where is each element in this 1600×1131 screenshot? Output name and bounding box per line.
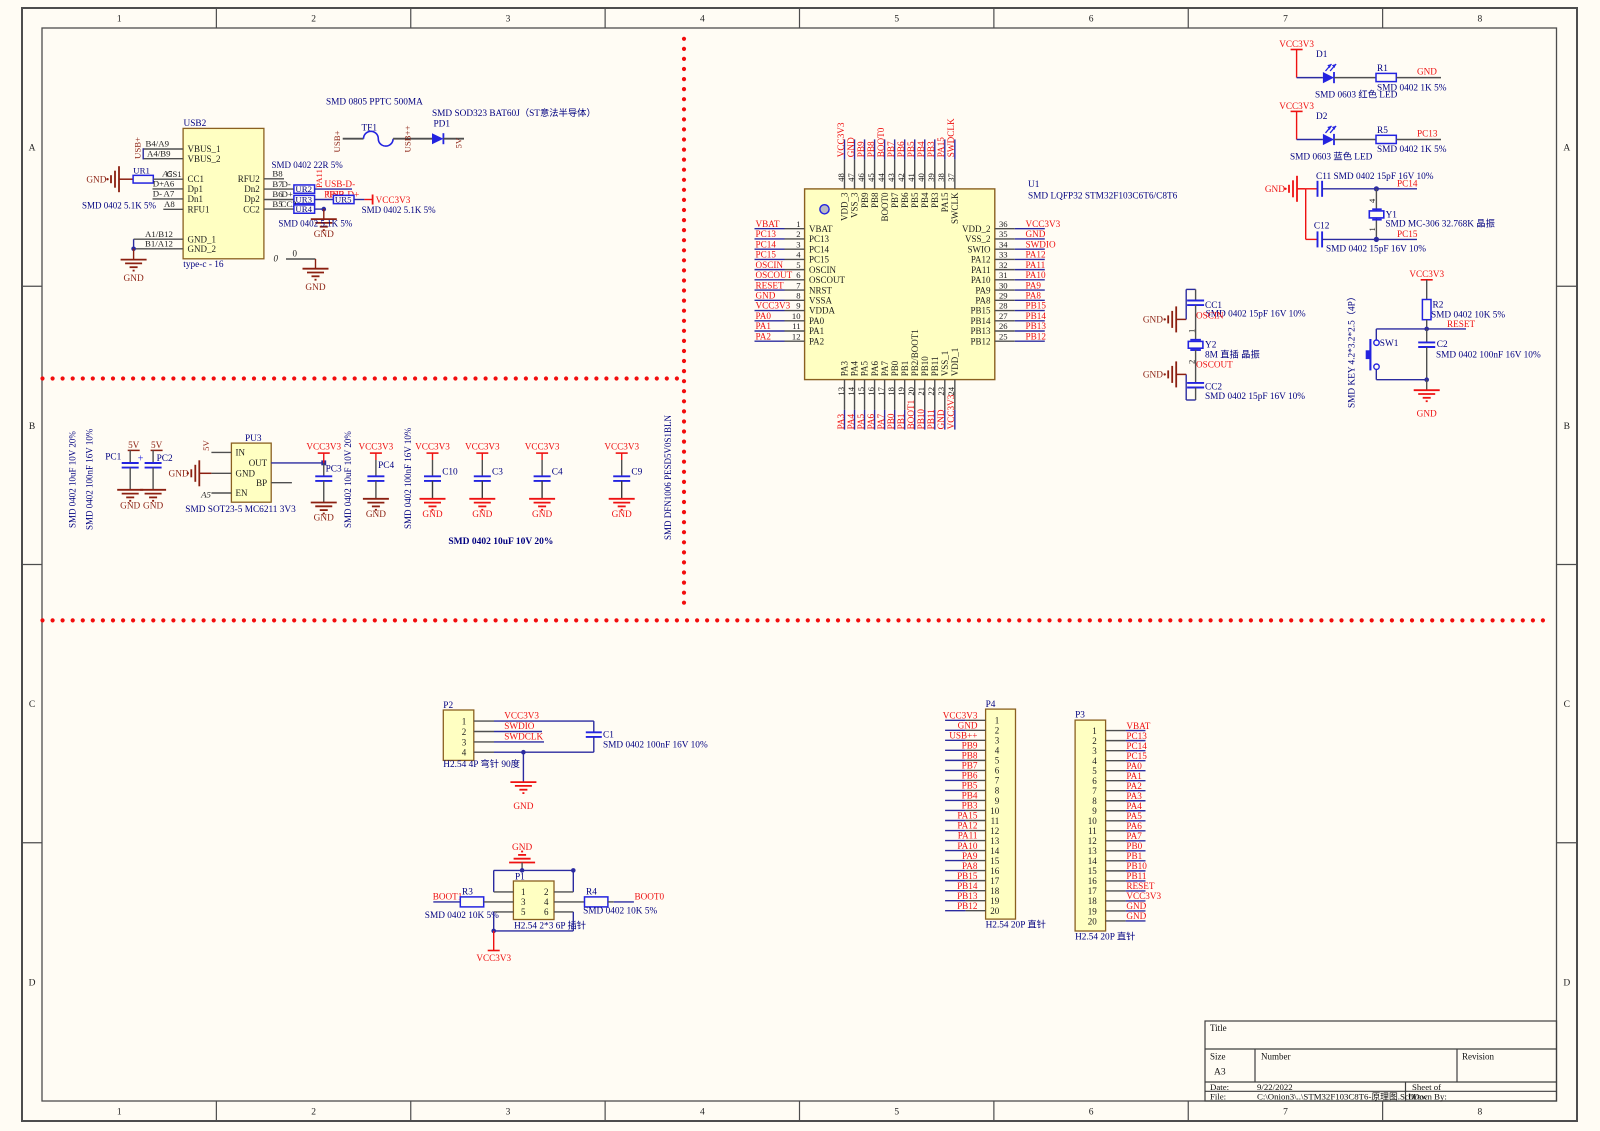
svg-text:20: 20 xyxy=(990,906,1000,916)
svg-text:4: 4 xyxy=(1092,756,1097,766)
svg-text:5: 5 xyxy=(796,260,800,270)
svg-text:PA4: PA4 xyxy=(850,361,860,377)
svg-text:GND: GND xyxy=(314,230,334,240)
svg-text:13: 13 xyxy=(836,387,846,396)
svg-text:VDD_1: VDD_1 xyxy=(950,348,960,377)
svg-text:BOOT0: BOOT0 xyxy=(876,127,886,157)
svg-text:PB5: PB5 xyxy=(962,781,978,791)
svg-text:OSCOUT: OSCOUT xyxy=(1196,359,1233,369)
svg-text:PB6: PB6 xyxy=(900,192,910,208)
svg-text:PA0: PA0 xyxy=(809,316,825,326)
svg-text:PA15: PA15 xyxy=(940,192,950,212)
svg-text:GND: GND xyxy=(1126,911,1146,921)
svg-text:BOOT0: BOOT0 xyxy=(880,192,890,221)
svg-text:C10: C10 xyxy=(442,467,458,477)
svg-text:D-: D- xyxy=(153,189,162,199)
svg-text:2: 2 xyxy=(1186,360,1196,364)
svg-text:TF1: TF1 xyxy=(362,124,378,134)
svg-text:31: 31 xyxy=(999,270,1008,280)
svg-text:+: + xyxy=(138,454,144,465)
svg-text:34: 34 xyxy=(999,239,1008,249)
svg-text:SMD 0402 10uF 10V 20%: SMD 0402 10uF 10V 20% xyxy=(68,431,78,528)
svg-text:OSCIN: OSCIN xyxy=(1196,311,1224,321)
svg-text:IN: IN xyxy=(236,448,246,458)
svg-text:3: 3 xyxy=(506,15,511,25)
svg-text:8: 8 xyxy=(796,291,800,301)
svg-text:27: 27 xyxy=(999,311,1008,321)
svg-text:13: 13 xyxy=(1088,846,1098,856)
svg-text:PA3: PA3 xyxy=(1126,791,1142,801)
svg-text:PB4: PB4 xyxy=(962,791,978,801)
svg-text:SMD 0402 15pF 16V 10%: SMD 0402 15pF 16V 10% xyxy=(1205,392,1305,402)
svg-text:A7: A7 xyxy=(164,189,175,199)
svg-text:6: 6 xyxy=(995,766,1000,776)
svg-text:23: 23 xyxy=(936,387,946,396)
svg-text:37: 37 xyxy=(946,173,956,182)
svg-text:B: B xyxy=(29,422,35,432)
svg-text:41: 41 xyxy=(906,173,916,182)
svg-text:5: 5 xyxy=(521,907,526,917)
svg-text:VCC3V3: VCC3V3 xyxy=(943,711,978,721)
svg-text:PA11: PA11 xyxy=(958,831,978,841)
svg-text:5: 5 xyxy=(995,756,1000,766)
svg-text:VCC3V3: VCC3V3 xyxy=(836,122,846,157)
svg-text:GND: GND xyxy=(120,502,140,512)
svg-text:21: 21 xyxy=(916,387,926,396)
svg-text:GND: GND xyxy=(472,510,492,520)
svg-text:PA11: PA11 xyxy=(971,265,990,275)
svg-text:SMD KEY 4.2*3.2*2.5（4P）: SMD KEY 4.2*3.2*2.5（4P） xyxy=(1347,292,1358,408)
svg-text:22: 22 xyxy=(926,387,936,396)
svg-text:1: 1 xyxy=(521,887,526,897)
svg-text:15: 15 xyxy=(1088,866,1098,876)
svg-text:PB10: PB10 xyxy=(920,356,930,377)
svg-text:1: 1 xyxy=(796,219,800,229)
svg-text:VCC3V3: VCC3V3 xyxy=(465,441,500,451)
svg-text:H2.54 4P 弯针 90度: H2.54 4P 弯针 90度 xyxy=(443,758,520,770)
svg-text:4: 4 xyxy=(700,15,705,25)
svg-text:11: 11 xyxy=(1088,826,1097,836)
svg-text:0: 0 xyxy=(293,249,298,259)
svg-text:GND: GND xyxy=(422,510,442,520)
svg-text:PB1: PB1 xyxy=(1126,851,1142,861)
svg-text:GND: GND xyxy=(143,502,163,512)
svg-text:VCC3V3: VCC3V3 xyxy=(359,441,394,451)
svg-text:18: 18 xyxy=(886,387,896,396)
svg-text:PB12: PB12 xyxy=(957,901,978,911)
svg-text:Dn1: Dn1 xyxy=(188,194,204,204)
svg-text:type-c - 16: type-c - 16 xyxy=(183,260,224,270)
svg-text:0: 0 xyxy=(274,253,279,263)
svg-text:U1: U1 xyxy=(1028,180,1040,190)
svg-text:H2.54 20P 直针: H2.54 20P 直针 xyxy=(1075,930,1135,942)
svg-text:PC13: PC13 xyxy=(756,229,777,239)
svg-text:28: 28 xyxy=(999,301,1008,311)
svg-text:PB0: PB0 xyxy=(1126,841,1142,851)
svg-text:VCC3V3: VCC3V3 xyxy=(306,441,341,451)
svg-text:GND: GND xyxy=(86,176,106,186)
svg-text:43: 43 xyxy=(886,173,896,182)
svg-text:GND: GND xyxy=(532,510,552,520)
svg-text:PC14: PC14 xyxy=(1397,178,1418,188)
svg-text:SMD 0402 5.1K 5%: SMD 0402 5.1K 5% xyxy=(362,205,437,215)
svg-text:2: 2 xyxy=(796,229,800,239)
svg-text:SWDIO: SWDIO xyxy=(1026,239,1056,249)
svg-text:GND: GND xyxy=(1143,316,1163,326)
svg-text:C2: C2 xyxy=(1437,340,1448,350)
svg-text:PB3: PB3 xyxy=(930,192,940,208)
svg-text:VCC3V3: VCC3V3 xyxy=(525,441,560,451)
svg-text:6: 6 xyxy=(1089,1108,1094,1118)
svg-text:10: 10 xyxy=(792,311,801,321)
svg-text:10: 10 xyxy=(990,806,1000,816)
svg-text:35: 35 xyxy=(999,229,1008,239)
svg-text:SMD DFN1006 PESD5V0S1BLN: SMD DFN1006 PESD5V0S1BLN xyxy=(663,414,673,540)
svg-text:7: 7 xyxy=(796,280,801,290)
svg-text:2: 2 xyxy=(544,887,549,897)
svg-text:2: 2 xyxy=(311,15,316,25)
svg-text:D: D xyxy=(1563,978,1570,988)
svg-text:PB4: PB4 xyxy=(916,141,926,157)
svg-text:SMD LQFP32 STM32F103C6T6/C8T6: SMD LQFP32 STM32F103C6T6/C8T6 xyxy=(1028,192,1178,202)
svg-text:GND: GND xyxy=(305,283,325,293)
svg-text:PA11: PA11 xyxy=(314,169,324,188)
svg-text:GND: GND xyxy=(236,469,256,479)
svg-text:16: 16 xyxy=(990,866,1000,876)
svg-text:VSS_2: VSS_2 xyxy=(965,234,991,244)
svg-text:4: 4 xyxy=(700,1108,705,1118)
svg-text:VCC3V3: VCC3V3 xyxy=(504,711,539,721)
svg-text:SWIO: SWIO xyxy=(968,244,991,254)
svg-text:16: 16 xyxy=(866,386,876,395)
svg-text:A3: A3 xyxy=(1214,1068,1226,1078)
svg-text:5V: 5V xyxy=(151,440,163,450)
svg-text:PA6: PA6 xyxy=(870,361,880,377)
svg-text:PB7: PB7 xyxy=(962,761,978,771)
svg-text:RESET: RESET xyxy=(1447,319,1475,329)
svg-text:PA7: PA7 xyxy=(876,413,886,429)
svg-text:P3: P3 xyxy=(1075,710,1085,720)
svg-text:VCC3V3: VCC3V3 xyxy=(1279,101,1314,111)
svg-text:VCC3V3: VCC3V3 xyxy=(476,953,511,963)
svg-text:PA15: PA15 xyxy=(957,811,977,821)
svg-text:PB0: PB0 xyxy=(890,360,900,376)
svg-text:VDD_3: VDD_3 xyxy=(840,192,850,221)
svg-text:PA11: PA11 xyxy=(1026,260,1046,270)
svg-text:15: 15 xyxy=(856,387,866,396)
svg-text:PA12: PA12 xyxy=(957,821,977,831)
svg-text:2: 2 xyxy=(311,1108,316,1118)
svg-text:PA10: PA10 xyxy=(957,841,977,851)
svg-text:PC1: PC1 xyxy=(105,453,121,463)
svg-text:PB10: PB10 xyxy=(1126,861,1147,871)
svg-text:CC2: CC2 xyxy=(243,205,260,215)
svg-text:A5: A5 xyxy=(200,489,211,499)
svg-text:40: 40 xyxy=(916,173,926,182)
svg-text:PA8: PA8 xyxy=(962,861,978,871)
svg-text:CC1: CC1 xyxy=(188,174,205,184)
svg-text:PB3: PB3 xyxy=(926,141,936,157)
svg-text:OSCIN: OSCIN xyxy=(809,265,837,275)
svg-text:4: 4 xyxy=(1367,198,1377,203)
svg-text:PB11: PB11 xyxy=(930,357,940,377)
svg-text:B1/A12: B1/A12 xyxy=(145,239,173,249)
svg-text:SMD 0805 PPTC 500MA: SMD 0805 PPTC 500MA xyxy=(326,98,423,108)
svg-text:PC14: PC14 xyxy=(1126,741,1147,751)
svg-text:UR4: UR4 xyxy=(295,204,312,214)
svg-text:6: 6 xyxy=(796,270,801,280)
svg-text:19: 19 xyxy=(896,387,906,396)
svg-text:20: 20 xyxy=(906,387,916,396)
svg-text:VCC3V3: VCC3V3 xyxy=(604,441,639,451)
svg-text:GND: GND xyxy=(958,721,978,731)
svg-text:5V: 5V xyxy=(453,137,463,148)
svg-text:C9: C9 xyxy=(631,467,642,477)
svg-text:R5: R5 xyxy=(1377,126,1388,136)
svg-text:SWDCLK: SWDCLK xyxy=(504,732,543,742)
svg-text:D+: D+ xyxy=(153,179,164,189)
svg-text:16: 16 xyxy=(1088,876,1098,886)
svg-text:11: 11 xyxy=(991,816,1000,826)
svg-text:PB6: PB6 xyxy=(896,141,906,157)
svg-text:PC15: PC15 xyxy=(1126,751,1147,761)
svg-text:38: 38 xyxy=(936,173,946,182)
svg-text:44: 44 xyxy=(876,173,886,182)
svg-text:1: 1 xyxy=(1092,726,1097,736)
svg-text:C1: C1 xyxy=(603,731,614,741)
svg-text:6: 6 xyxy=(544,907,549,917)
svg-text:PC4: PC4 xyxy=(378,461,394,471)
svg-text:SMD 0603 红色 LED: SMD 0603 红色 LED xyxy=(1315,89,1398,101)
svg-text:BOOT0: BOOT0 xyxy=(635,891,665,901)
svg-text:PB5: PB5 xyxy=(910,192,920,208)
svg-text:25: 25 xyxy=(999,331,1008,341)
svg-text:VCC3V3: VCC3V3 xyxy=(1126,891,1161,901)
svg-text:D1: D1 xyxy=(1316,50,1328,60)
svg-text:1: 1 xyxy=(995,716,1000,726)
svg-text:26: 26 xyxy=(999,321,1008,331)
svg-text:UR3: UR3 xyxy=(295,195,312,205)
svg-text:3: 3 xyxy=(521,897,526,907)
svg-text:H2.54 2*3 6P 插针: H2.54 2*3 6P 插针 xyxy=(514,919,586,931)
svg-text:PA0: PA0 xyxy=(756,311,772,321)
svg-text:PB7: PB7 xyxy=(890,192,900,208)
svg-text:7: 7 xyxy=(1092,786,1097,796)
svg-text:VCC3V3: VCC3V3 xyxy=(1279,39,1314,49)
svg-text:C: C xyxy=(1564,700,1570,710)
svg-text:PB8: PB8 xyxy=(962,751,978,761)
svg-text:14: 14 xyxy=(990,846,1000,856)
svg-text:RFU1: RFU1 xyxy=(188,205,210,215)
svg-text:A6: A6 xyxy=(164,179,175,189)
svg-text:PB14: PB14 xyxy=(1026,311,1047,321)
svg-text:USB++: USB++ xyxy=(402,125,412,152)
svg-text:GND: GND xyxy=(1417,410,1437,420)
svg-text:PA5: PA5 xyxy=(860,361,870,377)
svg-text:1: 1 xyxy=(117,1108,122,1118)
svg-text:GND: GND xyxy=(936,409,946,429)
svg-text:3: 3 xyxy=(506,1108,511,1118)
svg-text:VBUS_1: VBUS_1 xyxy=(188,144,221,154)
svg-text:PA7: PA7 xyxy=(1126,831,1142,841)
svg-text:36: 36 xyxy=(999,219,1008,229)
svg-text:RESET: RESET xyxy=(1126,881,1154,891)
svg-text:PB12: PB12 xyxy=(1026,331,1047,341)
svg-text:VSSA: VSSA xyxy=(809,296,833,306)
svg-text:GND: GND xyxy=(846,137,856,157)
svg-text:PB2/BOOT1: PB2/BOOT1 xyxy=(910,329,920,376)
svg-text:PC13: PC13 xyxy=(1417,129,1438,139)
svg-text:PA2: PA2 xyxy=(1126,781,1142,791)
svg-text:PA0: PA0 xyxy=(1126,761,1142,771)
svg-text:Dp2: Dp2 xyxy=(244,194,260,204)
svg-text:PA1: PA1 xyxy=(756,321,772,331)
svg-text:PC3: PC3 xyxy=(326,464,342,474)
svg-text:VSS_3: VSS_3 xyxy=(850,192,860,218)
svg-text:33: 33 xyxy=(999,250,1008,260)
svg-text:NRST: NRST xyxy=(809,285,833,295)
svg-text:PA12: PA12 xyxy=(1026,250,1046,260)
svg-text:SW1: SW1 xyxy=(1380,339,1399,349)
svg-text:SMD 0402 1K 5%: SMD 0402 1K 5% xyxy=(1377,145,1447,155)
svg-text:20: 20 xyxy=(1088,916,1098,926)
svg-text:GND: GND xyxy=(1126,901,1146,911)
svg-text:SMD 0402 100nF 16V 10%: SMD 0402 100nF 16V 10% xyxy=(1436,350,1541,360)
svg-text:PA6: PA6 xyxy=(866,413,876,429)
svg-text:47: 47 xyxy=(846,173,856,182)
svg-text:GND_2: GND_2 xyxy=(188,244,217,254)
svg-text:BP: BP xyxy=(256,478,267,488)
svg-text:PC15: PC15 xyxy=(809,255,830,265)
svg-text:A8: A8 xyxy=(164,199,175,209)
svg-text:PB15: PB15 xyxy=(957,871,978,881)
svg-text:PB15: PB15 xyxy=(970,306,991,316)
svg-text:OSCOUT: OSCOUT xyxy=(809,275,846,285)
svg-text:PA5: PA5 xyxy=(856,413,866,429)
svg-text:Dp1: Dp1 xyxy=(188,184,204,194)
svg-text:9/22/2022: 9/22/2022 xyxy=(1257,1082,1293,1092)
svg-text:PB15: PB15 xyxy=(1026,301,1047,311)
svg-text:PB9: PB9 xyxy=(860,192,870,208)
svg-text:29: 29 xyxy=(999,291,1008,301)
svg-text:PB14: PB14 xyxy=(970,316,991,326)
svg-text:GND: GND xyxy=(1417,67,1437,77)
svg-text:PA15: PA15 xyxy=(936,137,946,157)
svg-text:RFU2: RFU2 xyxy=(238,174,260,184)
svg-text:PC2: PC2 xyxy=(157,454,173,464)
svg-text:VCC3V3: VCC3V3 xyxy=(946,394,956,429)
svg-text:24: 24 xyxy=(946,386,956,395)
svg-text:18: 18 xyxy=(1088,896,1098,906)
svg-text:C:\Onion3\..\STM32F103C8T6-原理图: C:\Onion3\..\STM32F103C8T6-原理图.SchDoc xyxy=(1257,1091,1428,1101)
svg-text:OSCIN: OSCIN xyxy=(756,260,784,270)
svg-text:VBAT: VBAT xyxy=(1126,721,1150,731)
svg-text:SMD 0402 10K 5%: SMD 0402 10K 5% xyxy=(425,911,499,921)
svg-text:6: 6 xyxy=(1092,776,1097,786)
svg-text:8: 8 xyxy=(1477,15,1482,25)
svg-text:19: 19 xyxy=(990,896,1000,906)
svg-text:PA7: PA7 xyxy=(880,361,890,377)
svg-text:A: A xyxy=(29,144,36,154)
svg-text:12: 12 xyxy=(792,331,801,341)
svg-text:File:: File: xyxy=(1210,1091,1226,1101)
svg-text:B4/A9: B4/A9 xyxy=(146,139,170,149)
svg-text:PB8: PB8 xyxy=(866,141,876,157)
svg-text:VDDA: VDDA xyxy=(809,306,835,316)
svg-text:SMD 0402 100nF 16V 10%: SMD 0402 100nF 16V 10% xyxy=(403,427,413,529)
svg-text:32: 32 xyxy=(999,260,1008,270)
svg-text:PA9: PA9 xyxy=(975,285,991,295)
svg-text:PC15: PC15 xyxy=(1397,229,1418,239)
svg-text:GND: GND xyxy=(1026,229,1046,239)
svg-text:SMD MC-306 32.768K 晶振: SMD MC-306 32.768K 晶振 xyxy=(1385,217,1495,229)
svg-text:C12: C12 xyxy=(1314,221,1330,231)
svg-text:15: 15 xyxy=(990,856,1000,866)
svg-text:48: 48 xyxy=(836,173,846,182)
svg-text:R3: R3 xyxy=(462,888,473,898)
svg-text:2: 2 xyxy=(462,727,467,737)
svg-text:14: 14 xyxy=(1088,856,1098,866)
svg-text:PC14: PC14 xyxy=(809,244,830,254)
svg-text:Drawn By:: Drawn By: xyxy=(1408,1091,1447,1101)
svg-text:UR2: UR2 xyxy=(295,184,312,194)
svg-text:VCC3V3: VCC3V3 xyxy=(1409,269,1444,279)
svg-text:D+: D+ xyxy=(282,189,293,199)
svg-text:Size: Size xyxy=(1210,1052,1226,1062)
svg-text:SWDIO: SWDIO xyxy=(504,721,534,731)
svg-text:PB4: PB4 xyxy=(920,192,930,208)
svg-text:SMD 0402 5.1K 5%: SMD 0402 5.1K 5% xyxy=(82,201,157,211)
svg-text:7: 7 xyxy=(1283,15,1288,25)
svg-text:GND: GND xyxy=(366,510,386,520)
svg-text:39: 39 xyxy=(926,173,936,182)
svg-text:USB++: USB++ xyxy=(949,731,977,741)
svg-text:46: 46 xyxy=(856,173,866,182)
svg-text:5: 5 xyxy=(1092,766,1097,776)
svg-text:C3: C3 xyxy=(492,467,503,477)
svg-text:PA8: PA8 xyxy=(1026,291,1042,301)
svg-text:Title: Title xyxy=(1210,1023,1227,1033)
svg-text:VCC3V3: VCC3V3 xyxy=(415,441,450,451)
svg-text:7: 7 xyxy=(1283,1108,1288,1118)
svg-text:A1/B12: A1/B12 xyxy=(145,229,173,239)
svg-text:5V: 5V xyxy=(128,440,140,450)
svg-text:B8: B8 xyxy=(272,169,283,179)
svg-text:SMD 0402 10uF 10V 20%: SMD 0402 10uF 10V 20% xyxy=(343,431,353,528)
svg-text:1: 1 xyxy=(1367,227,1377,231)
svg-text:USB+: USB+ xyxy=(332,130,342,152)
svg-text:R2: R2 xyxy=(1433,301,1444,311)
svg-text:GND: GND xyxy=(1143,371,1163,381)
svg-text:VSS_1: VSS_1 xyxy=(940,351,950,377)
svg-text:USB-D-: USB-D- xyxy=(325,179,356,189)
svg-text:PC13: PC13 xyxy=(809,234,830,244)
svg-text:PB14: PB14 xyxy=(957,881,978,891)
svg-text:8: 8 xyxy=(1092,796,1097,806)
svg-text:7: 7 xyxy=(995,776,1000,786)
svg-text:12: 12 xyxy=(1088,836,1097,846)
svg-text:30: 30 xyxy=(999,280,1008,290)
svg-text:10: 10 xyxy=(1088,816,1098,826)
svg-text:9: 9 xyxy=(1092,806,1097,816)
svg-text:19: 19 xyxy=(1088,906,1098,916)
svg-text:PB3: PB3 xyxy=(962,801,978,811)
svg-text:RESET: RESET xyxy=(756,280,784,290)
svg-text:OSCOUT: OSCOUT xyxy=(756,270,793,280)
svg-text:PB7: PB7 xyxy=(886,141,896,157)
svg-text:3: 3 xyxy=(1092,746,1097,756)
svg-text:4: 4 xyxy=(462,748,467,758)
